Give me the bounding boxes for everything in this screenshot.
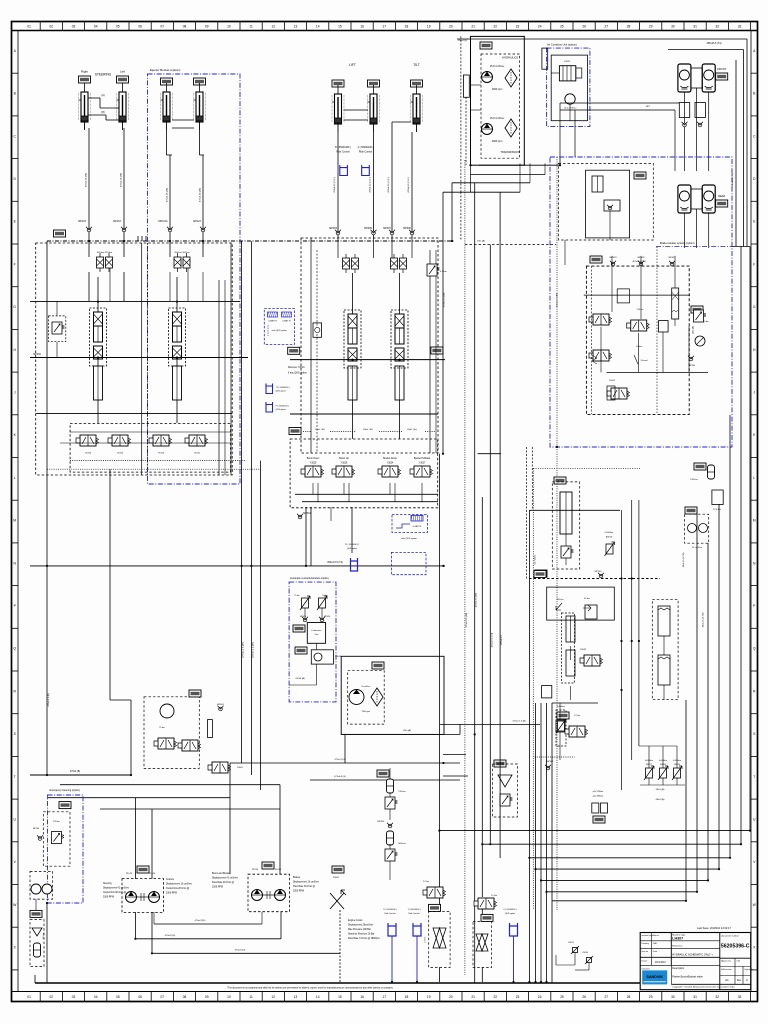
accumulator charging box [559,163,654,240]
svg-text:470x4-19 ( 5,6 ): 470x4-19 ( 5,6 ) [370,177,372,193]
air condition unit option [547,48,590,127]
with QDS option box2 [392,515,428,533]
svg-text:30: 30 [671,25,675,29]
svg-text:49w1 ( A ): 49w1 ( A ) [407,428,417,431]
svg-text:470x4-19 ( 5,6 ): 470x4-19 ( 5,6 ) [408,177,410,193]
axle feed lines [560,102,679,104]
svg-text:14: 14 [316,25,320,29]
svg-text:2300 RPM: 2300 RPM [103,897,114,899]
svg-text:25: 25 [560,25,564,29]
reducing valve 2 [589,350,612,361]
svg-text:17: 17 [383,25,387,29]
svg-text:Left: Left [120,70,125,74]
svg-text:15: 15 [338,25,342,29]
svg-text:C: C [746,978,748,982]
svg-text:MP518: MP518 [638,257,646,259]
svg-text:15.8 cm3/rev: 15.8 cm3/rev [490,65,505,68]
svg-text:Lubrication: Lubrication [312,629,322,632]
svg-text:L: L [14,476,16,480]
svg-text:10: 10 [227,995,231,999]
ejector link wires [172,119,194,121]
svg-text:Displacement 10 cm3/rev: Displacement 10 cm3/rev [166,883,193,886]
main spool ejector [169,308,186,366]
breather KX033 [30,910,42,917]
valve 27.6 bar [712,490,723,505]
svg-text:TRANSMISSION: TRANSMISSION [500,151,519,154]
svg-text:Approv. by: Approv. by [721,960,730,963]
svg-text:HYDRAULIC SCHEMATIC ONLY +: HYDRAULIC SCHEMATIC ONLY + [672,953,713,957]
svg-text:P ( 56200303 ): P ( 56200303 ) [276,406,290,408]
svg-text:MP104: MP104 [113,220,121,223]
ejector bucket option box [148,74,241,484]
svg-text:470x4-0.5 (B): 470x4-0.5 (B) [48,693,50,707]
svg-text:MP103: MP103 [78,220,86,223]
emergency relief [52,832,65,844]
svg-text:P3001: P3001 [333,877,340,879]
svg-text:1660 rpm: 1660 rpm [492,88,503,91]
svg-text:130 bar: 130 bar [53,821,60,823]
svg-text:470x4-19 ( 5,6 ): 470x4-19 ( 5,6 ) [334,177,336,193]
pilot cluster box [529,509,620,511]
dotted vertical in blue box [556,157,558,447]
svg-text:Drawing: Drawing [642,943,649,945]
tank line [35,982,640,984]
svg-text:Y1001: Y1001 [194,453,201,455]
svg-text:23: 23 [516,25,520,29]
svg-text:Chk: Chk [737,961,741,963]
svg-text:Displacement 28cm3/rev: Displacement 28cm3/rev [348,924,374,927]
bus line P [47,240,455,242]
QDS P port [266,402,273,412]
svg-text:(B): (B) [101,111,104,114]
solenoid valve Y1001 [185,435,208,446]
svg-text:Ride Control: Ride Control [359,151,373,154]
svg-text:Max Pressure 190 Bar: Max Pressure 190 Bar [348,928,371,931]
svg-text:Right: Right [81,70,88,74]
svg-text:2300 RPM: 2300 RPM [166,893,177,895]
automatic central lubrication option [289,582,336,702]
lower spool sections [94,366,103,400]
svg-text:0-GBR T8: 0-GBR T8 [413,526,421,528]
svg-text:33: 33 [738,995,742,999]
svg-text:04: 04 [94,25,98,29]
ride control ports [340,165,348,176]
svg-text:02: 02 [50,25,54,29]
svg-text:320 bar 320 bar: 320 bar 320 bar [174,251,190,254]
svg-text:15.8 cm3/rev: 15.8 cm3/rev [490,117,505,120]
solenoid valve Y1003 [76,435,99,446]
title block [640,926,753,990]
svg-text:Stand-by Pressure 26 Bar: Stand-by Pressure 26 Bar [348,933,375,936]
solenoid valve Y1004 [149,435,172,446]
svg-text:20: 20 [449,25,453,29]
svg-text:M: M [753,519,756,523]
KX040 towing pump [685,507,697,514]
svg-text:Automatic central lubrication: Automatic central lubrication (option) [290,577,329,580]
svg-text:X3036: X3036 [582,952,589,954]
svg-text:06: 06 [138,25,142,29]
svg-text:08: 08 [183,995,187,999]
mid bank descenders [305,507,307,566]
svg-text:J: J [14,391,16,395]
KX061 cooler bypass [189,690,201,697]
svg-text:Ride Control: Ride Control [408,912,420,915]
wire ejector B [202,155,204,241]
svg-text:01: 01 [27,25,31,29]
svg-text:1660 rpm: 1660 rpm [492,140,503,143]
KX001 label low [289,428,301,435]
svg-text:LH307: LH307 [672,937,683,941]
svg-text:31: 31 [693,25,697,29]
svg-text:0-GBR P4: 0-GBR P4 [268,321,277,323]
KX049 accumulator cluster [694,463,706,470]
cartridge valve [672,288,679,319]
svg-text:MP504: MP504 [689,365,696,367]
dotted enclosure [533,467,640,469]
svg-text:Boom Down: Boom Down [307,458,320,460]
trunk lines from pump [479,164,560,166]
AC motor circle [565,94,575,104]
svg-text:471x4-3 (G): 471x4-3 (G) [334,776,346,778]
svg-text:471x2-1.5 (A): 471x2-1.5 (A) [512,720,526,723]
svg-text:Y3024: Y3024 [387,463,394,465]
fan motor [349,690,364,705]
svg-text:P1020: P1020 [252,869,259,871]
svg-text:Mat.no: Mat.no [653,934,660,937]
svg-text:Drawn: Drawn [642,961,648,963]
KX045 priority valve [554,477,566,484]
svg-text:MP307: MP307 [383,227,391,230]
AC label rotated [542,48,548,69]
svg-text:D ( 56200306 ): D ( 56200306 ) [383,909,397,911]
svg-text:Remove Y3024: Remove Y3024 [288,366,305,369]
long T line [30,565,445,567]
reducing station box [547,587,615,620]
svg-text:MP305: MP305 [364,227,372,230]
svg-text:470x4-19 ( 5,6 ): 470x4-19 ( 5,6 ) [388,177,390,193]
svg-text:Y1002: Y1002 [117,453,124,455]
svg-text:32: 32 [716,995,720,999]
emergency steering option [48,795,84,903]
svg-text:Displacement 41 cm3/rev: Displacement 41 cm3/rev [212,877,239,880]
wire steering B [123,128,125,241]
svg-text:Y3025: Y3025 [310,463,317,465]
svg-text:MP301: MP301 [303,512,311,515]
svg-text:24: 24 [538,995,542,999]
svg-text:QDS option: QDS option [347,547,357,550]
svg-text:02: 02 [50,995,54,999]
blue resistor [411,516,423,522]
svg-text:15: 15 [338,995,342,999]
svg-text:56205396-C: 56205396-C [721,944,750,950]
steering link wires [88,97,100,99]
svg-text:Coolers: Coolers [166,878,175,881]
svg-text:T3 ( 56200301 ): T3 ( 56200301 ) [345,544,360,546]
svg-text:2300 RPM: 2300 RPM [293,891,304,893]
svg-text:TILT: TILT [413,63,419,67]
svg-text:32: 32 [716,25,720,29]
svg-text:27: 27 [605,995,609,999]
svg-text:MP501: MP501 [378,821,386,823]
svg-text:06: 06 [138,995,142,999]
svg-text:Air Condition Unit (option): Air Condition Unit (option) [547,43,577,47]
main spool steering [90,308,107,366]
KX031 brake valve block [590,256,602,263]
charge valve [592,176,603,192]
svg-text:456x23.5 (T4): 456x23.5 (T4) [732,173,734,187]
svg-text:Boom Up: Boom Up [339,458,349,460]
svg-text:320 bar 320 bar: 320 bar 320 bar [97,251,113,254]
bucket spool [391,310,408,368]
svg-text:Flow Rate 36 l/min @: Flow Rate 36 l/min @ [293,885,316,888]
svg-text:MP401: MP401 [547,761,555,763]
svg-text:09: 09 [205,995,209,999]
svg-text:27: 27 [605,25,609,29]
svg-text:21: 21 [471,25,475,29]
bank T line [36,412,232,414]
HP101 label [54,230,66,237]
svg-text:Boom and Bucket: Boom and Bucket [212,872,230,875]
svg-text:SANDVIK: SANDVIK [646,975,663,979]
QDS T1 port [266,384,273,394]
svg-text:QDS option: QDS option [276,390,286,393]
svg-text:470x5a-1.5 (2E): 470x5a-1.5 (2E) [252,642,254,658]
bus ticks [137,236,139,241]
line 470x4 B [30,774,131,776]
rotated label left of pump [463,75,469,97]
pump hydraulics [482,72,493,83]
AC compressor [559,66,575,81]
svg-text:CAD: CAD [653,942,658,945]
wire steering A [88,128,90,241]
svg-text:Output flow 90 l/min @: Output flow 90 l/min @ [103,891,127,894]
svg-text:16: 16 [360,995,364,999]
svg-text:MP601: MP601 [217,704,225,706]
accumulator charge valves [652,600,678,700]
svg-text:0-GBR T9: 0-GBR T9 [282,321,290,323]
svg-text:22: 22 [494,995,498,999]
svg-text:Displacement 16 cm3/rev: Displacement 16 cm3/rev [293,881,320,884]
svg-text:with QDS option: with QDS option [272,329,288,332]
svg-text:13: 13 [294,995,298,999]
svg-text:Brakes: Brakes [293,876,301,879]
mid bank P line [290,359,445,361]
svg-text:Parker Boom/Bucket valve: Parker Boom/Bucket valve [672,975,703,979]
svg-text:29: 29 [649,25,653,29]
svg-text:LIFT: LIFT [349,63,356,67]
svg-text:470x4-1.5 (2B): 470x4-1.5 (2B) [444,293,446,308]
svg-text:MP102: MP102 [33,353,41,356]
pilot solenoid box left bank [70,423,231,472]
top right supply line [457,38,747,40]
svg-text:14.7 (2D): 14.7 (2D) [534,555,536,564]
svg-text:QDS option: QDS option [505,912,515,915]
svg-text:with QDS option: with QDS option [401,537,418,540]
svg-text:49w1 (A): 49w1 (A) [656,788,665,791]
svg-text:MP123: MP123 [193,220,201,223]
svg-text:MP100: MP100 [33,828,40,830]
svg-text:12: 12 [272,995,276,999]
svg-text:J: J [753,391,755,395]
svg-text:1.2 bar: 1.2 bar [425,937,427,944]
brake valves between axles [679,103,689,118]
svg-text:470x4-16 (2B): 470x4-16 (2B) [86,173,88,187]
svg-text:470x4-16 (2B): 470x4-16 (2B) [167,188,169,202]
svg-text:470x4-1.5 (4F): 470x4-1.5 (4F) [557,293,559,308]
svg-text:Q: Q [13,647,16,651]
svg-text:T: T [14,775,16,779]
svg-text:100 bar: 100 bar [556,598,563,601]
svg-text:120 bar: 120 bar [637,309,644,311]
bank main P line [30,357,248,359]
svg-text:470x4 (16): 470x4 (16) [165,935,176,937]
svg-text:T1 ( 56200302 ): T1 ( 56200302 ) [276,387,291,389]
KX076 cluster [557,712,569,719]
SANDVIK logo [643,971,667,984]
svg-text:Original ch.: Original ch. [744,969,754,971]
ejector cylinder 1 [161,78,173,85]
oil cooler assembly box [341,656,444,734]
svg-text:Ride Control: Ride Control [336,151,350,154]
svg-text:MP103: MP103 [595,571,603,573]
pilot spool [562,613,575,683]
svg-text:p2=190bar: p2=190bar [593,795,604,798]
svg-text:470x4-1.5: 470x4-1.5 [501,634,503,645]
svg-text:(A): (A) [101,94,104,97]
shock pair bucket [391,254,407,273]
svg-text:2300 RPM: 2300 RPM [212,887,223,889]
svg-text:10: 10 [227,25,231,29]
svg-text:MP303: MP303 [329,227,337,230]
svg-text:25: 25 [560,995,564,999]
svg-text:470x4 (A): 470x4 (A) [295,677,305,680]
svg-text:Displacement 41 cm3/rev: Displacement 41 cm3/rev [103,887,130,890]
emergency pump [30,871,53,899]
svg-text:G: G [753,305,756,309]
svg-text:12: 12 [272,25,276,29]
pilot bus dashed [529,578,660,580]
svg-text:Y3021: Y3021 [564,61,571,63]
svg-text:14: 14 [316,995,320,999]
right edge verticals [746,39,748,247]
svg-text:L: L [753,476,755,480]
svg-text:450x4-0.5 (T4): 450x4-0.5 (T4) [327,561,343,564]
svg-text:F: F [14,262,16,266]
svg-text:27.6 bar: 27.6 bar [713,508,721,511]
svg-text:28: 28 [627,995,631,999]
svg-text:A ( 56200106 ): A ( 56200106 ) [358,146,374,149]
middle valve bank outline [301,238,438,453]
svg-text:470x4 (20): 470x4 (20) [235,950,246,952]
svg-text:50 bar: 50 bar [703,321,709,323]
solenoid valve Y1002 [108,435,131,446]
wire ejector A [169,155,171,241]
svg-text:30: 30 [671,995,675,999]
line 471x2 [440,723,540,725]
svg-text:Bucket Pullback: Bucket Pullback [414,457,431,460]
svg-text:20: 20 [449,995,453,999]
svg-text:22: 22 [494,25,498,29]
svg-text:07: 07 [161,995,165,999]
svg-text:13: 13 [294,25,298,29]
svg-text:Q: Q [753,647,756,651]
svg-text:Brake release system (option): Brake release system (option) [660,241,695,245]
pilot right verticals [621,510,623,700]
shock pair boom [343,254,359,273]
svg-text:Copyright © Sandvik Mining and: Copyright © Sandvik Mining and Construct… [672,986,735,989]
KX078 return filter [494,760,506,767]
svg-text:05: 05 [116,995,120,999]
block wires [591,266,593,414]
lift wires [337,132,339,238]
svg-text:470x4-1.5 (4F): 470x4-1.5 (4F) [476,593,478,608]
counterbalance valve [49,316,66,342]
svg-text:21: 21 [471,995,475,999]
svg-text:140 bar: 140 bar [690,478,698,481]
svg-text:P1030: P1030 [275,869,282,871]
lubrication unit [307,623,325,644]
svg-text:19: 19 [427,25,431,29]
svg-text:T ( 56200306 ): T ( 56200306 ) [407,909,420,911]
svg-text:2650 rpm: 2650 rpm [362,711,371,713]
svg-text:document number: document number [721,935,739,938]
svg-text:19: 19 [427,995,431,999]
svg-text:FRONT: FRONT [717,67,726,71]
reducing valve 1 [589,314,612,325]
svg-text:18: 18 [405,995,409,999]
svg-text:09: 09 [205,25,209,29]
svg-text:HYDRAULICS: HYDRAULICS [502,57,518,60]
svg-text:Item no: Item no [642,950,650,953]
svg-text:Y3026: Y3026 [341,463,348,465]
svg-text:Flow Rate 90 l/min @: Flow Rate 90 l/min @ [212,881,235,884]
left valve bank outline [36,243,233,475]
pump transmission [482,124,493,135]
svg-text:49ul (A): 49ul (A) [692,326,695,334]
reducing valve 3 [627,320,650,331]
svg-text:01: 01 [27,995,31,999]
svg-text:Ejector Bucket (option): Ejector Bucket (option) [150,68,180,72]
svg-text:STEERING: STEERING [95,73,112,77]
front axle motors [678,64,691,92]
svg-text:1.2 bar: 1.2 bar [491,895,498,897]
svg-text:49ul (A): 49ul (A) [403,729,411,732]
pump unit wires [471,84,482,86]
middle corridor verticals [465,244,556,246]
rear axle motors [678,185,691,213]
svg-text:Output flow 26 l/min @: Output flow 26 l/min @ [166,887,190,890]
svg-text:11: 11 [249,25,253,29]
svg-text:T: T [753,775,755,779]
svg-text:A1: A1 [725,978,729,982]
svg-text:28: 28 [627,25,631,29]
svg-text:456x23.5 (T4): 456x23.5 (T4) [707,42,722,45]
staircase risers [749,247,751,831]
svg-text:26: 26 [582,995,586,999]
svg-text:49ul (A): 49ul (A) [477,240,485,243]
svg-text:Closed: Closed [641,360,649,362]
wires lower right [570,646,572,660]
svg-text:4.5 bar: 4.5 bar [440,270,447,273]
descenders mid-left [241,241,243,763]
svg-text:75 bar: 75 bar [294,595,300,597]
svg-text:0-600bar: 0-600bar [557,706,565,708]
svg-text:470x4 (2E): 470x4 (2E) [195,920,206,922]
svg-text:05: 05 [116,25,120,29]
KX002 label [288,347,300,354]
svg-text:MP306: MP306 [403,227,411,230]
svg-text:A,B-version: A,B-version [721,968,731,971]
